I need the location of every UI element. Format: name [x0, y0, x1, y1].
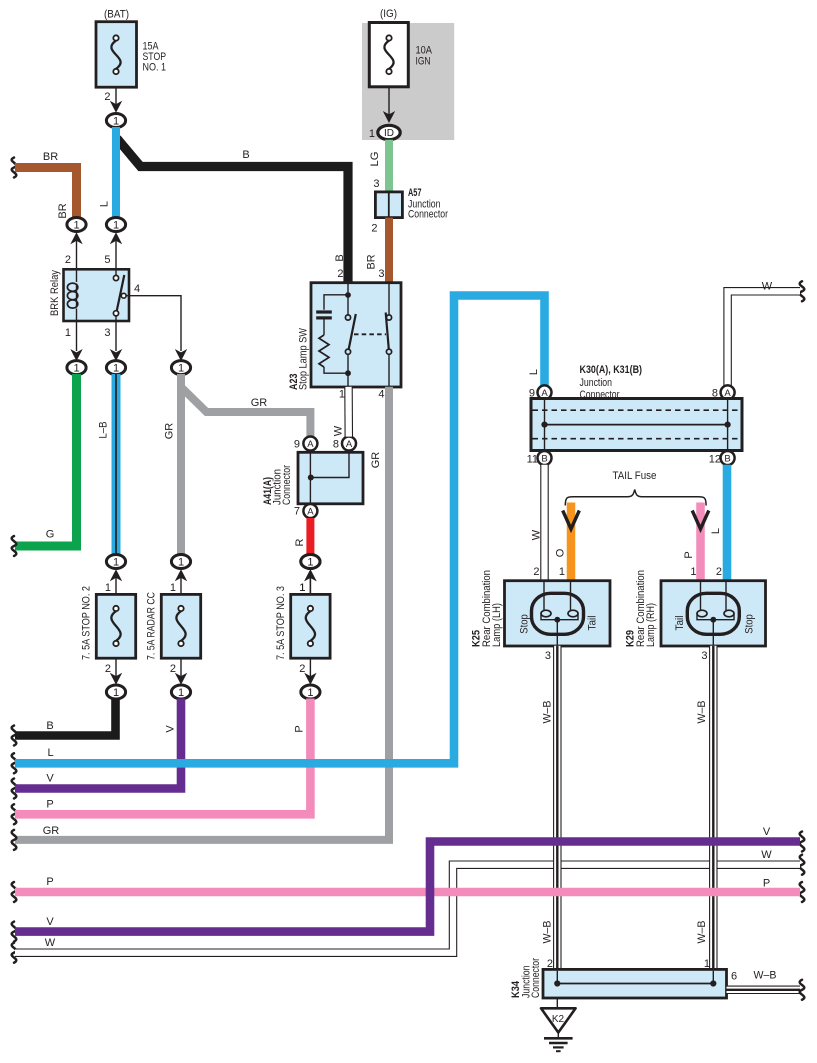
- svg-text:12: 12: [709, 453, 721, 465]
- ground point K2: [541, 1008, 576, 1032]
- svg-text:L: L: [99, 201, 111, 207]
- wire L (blue) main run to K30: [12, 296, 545, 774]
- A23 internal capacitor: [316, 295, 348, 335]
- svg-text:G: G: [46, 529, 55, 541]
- svg-text:B: B: [242, 149, 249, 161]
- connector 1 relay pin 3: [106, 361, 125, 375]
- svg-text:1: 1: [113, 556, 119, 568]
- svg-text:Connector: Connector: [530, 958, 542, 998]
- svg-text:7. 5A STOP NO. 3: 7. 5A STOP NO. 3: [275, 586, 287, 660]
- svg-text:W: W: [531, 529, 543, 540]
- svg-text:P: P: [46, 799, 53, 811]
- svg-text:GR: GR: [43, 825, 60, 837]
- pin 11 of K30: [527, 451, 552, 465]
- wire BR (brown) A57 to A23: [366, 218, 390, 283]
- svg-text:L: L: [528, 369, 540, 375]
- svg-text:2: 2: [371, 223, 377, 235]
- connector 1 on R wire: [299, 555, 320, 595]
- svg-text:1: 1: [73, 219, 79, 231]
- wire B (black) fuse STOP NO.2 to left edge: [12, 699, 116, 746]
- svg-text:GR: GR: [164, 423, 176, 440]
- wire L-B (blue-black): [98, 374, 117, 556]
- svg-text:4: 4: [134, 283, 140, 295]
- svg-text:K2: K2: [552, 1014, 565, 1025]
- wire GR (gray) relay to RADAR CC fuse: [164, 374, 182, 556]
- label K30(A), K31(B) Junction Connector: [580, 364, 643, 401]
- svg-text:4: 4: [378, 389, 384, 401]
- connector 1 above fuse 7. 5A RADAR CC: [170, 555, 191, 595]
- fuse 7. 5A STOP NO. 3: [291, 594, 330, 658]
- connector 1 below fuse 7. 5A STOP NO. 2: [106, 685, 125, 699]
- lamp K25 Rear Combination Lamp (LH): [505, 581, 611, 646]
- svg-text:W: W: [761, 849, 772, 861]
- wire V (violet) lower bus: [12, 826, 805, 942]
- svg-text:(BAT): (BAT): [104, 9, 129, 21]
- svg-text:A: A: [346, 439, 353, 450]
- svg-text:1: 1: [369, 128, 375, 140]
- pin 1 of relay: [65, 321, 83, 361]
- A23 switch contact right: [386, 283, 392, 387]
- svg-text:1: 1: [113, 687, 119, 699]
- A23 switch contact left: [345, 283, 356, 387]
- svg-text:Tail: Tail: [587, 616, 599, 631]
- svg-text:1: 1: [105, 582, 111, 594]
- connector 1 above fuse 7. 5A STOP NO. 2: [105, 555, 126, 595]
- svg-text:1: 1: [690, 566, 696, 578]
- pin 8 of A41: [333, 437, 356, 451]
- svg-text:3: 3: [104, 327, 110, 339]
- svg-text:3: 3: [545, 650, 551, 662]
- svg-text:1: 1: [113, 363, 119, 375]
- junction connector K34: [543, 969, 727, 998]
- label 10A IGN: [416, 45, 433, 68]
- relay BRK Relay: [49, 269, 129, 321]
- label K29 Rear Combination Lamp (RH): [625, 570, 658, 647]
- shaded panel (IG area): [362, 23, 454, 140]
- wire P (pink) lower bus left to right: [12, 876, 805, 902]
- svg-text:P: P: [46, 876, 53, 888]
- svg-text:7. 5A RADAR CC: 7. 5A RADAR CC: [146, 592, 158, 660]
- svg-text:Connector: Connector: [408, 209, 448, 221]
- pin 3 of relay: [104, 321, 122, 361]
- svg-text:IGN: IGN: [416, 56, 431, 68]
- wire V (violet) fuse RADAR CC to left edge: [12, 699, 181, 799]
- svg-text:A57: A57: [408, 187, 422, 199]
- svg-text:GR: GR: [370, 452, 382, 469]
- label A23 Stop Lamp SW: [288, 327, 310, 390]
- svg-text:Stop: Stop: [744, 614, 756, 634]
- pin 7 of A41: [294, 504, 318, 518]
- svg-text:V: V: [165, 725, 177, 733]
- svg-text:V: V: [763, 826, 771, 838]
- relay coil: [67, 269, 77, 321]
- svg-text:LG: LG: [369, 152, 381, 167]
- svg-text:W–B: W–B: [542, 701, 554, 724]
- wire W (white) A23 pin 1 to A41 pin 8: [333, 387, 349, 437]
- A23 internal resistor: [319, 335, 348, 373]
- svg-text:GR: GR: [251, 397, 268, 409]
- svg-text:O: O: [555, 548, 567, 557]
- svg-text:V: V: [46, 773, 54, 785]
- svg-text:1: 1: [73, 363, 79, 375]
- svg-text:L: L: [47, 747, 53, 759]
- svg-text:W–B: W–B: [542, 921, 554, 944]
- wire W (white) K30 pin 11 to K25: [531, 465, 545, 581]
- wire P (pink) fuse STOP NO.3 to left edge: [12, 699, 311, 825]
- svg-text:3: 3: [378, 268, 384, 280]
- svg-text:1: 1: [178, 687, 184, 699]
- svg-text:ID: ID: [384, 128, 394, 139]
- svg-text:W: W: [45, 937, 56, 949]
- svg-text:W: W: [762, 281, 773, 293]
- svg-text:(IG): (IG): [380, 8, 397, 20]
- svg-text:2: 2: [65, 254, 71, 266]
- svg-text:1: 1: [113, 219, 119, 231]
- connector 1 below fuse 7. 5A RADAR CC: [171, 685, 190, 699]
- junction connector K30(A), K31(B): [531, 399, 742, 451]
- wire P (pink) from TAIL fuse to K29: [683, 503, 709, 582]
- wire W-B from K34 pin 6 to right edge: [727, 970, 805, 1000]
- wire G (green) to left edge: [12, 374, 77, 556]
- svg-text:Lamp (RH): Lamp (RH): [645, 603, 657, 647]
- svg-text:K30(A), K31(B): K30(A), K31(B): [580, 364, 643, 376]
- connector 1 below BAT fuse: [106, 114, 125, 128]
- svg-text:BR: BR: [43, 151, 58, 163]
- fuse 7. 5A RADAR CC: [161, 594, 200, 658]
- svg-text:1: 1: [339, 389, 345, 401]
- pin 9 of K30: [529, 385, 552, 399]
- svg-text:BRK Relay: BRK Relay: [49, 270, 61, 316]
- lamp K29 Rear Combination Lamp (RH): [661, 581, 766, 646]
- svg-text:W–B: W–B: [696, 701, 708, 724]
- svg-text:2: 2: [716, 566, 722, 578]
- pin 2 and pin 5 of BRK relay: [65, 254, 111, 266]
- label K34 Junction Connector: [510, 958, 542, 998]
- svg-text:L: L: [710, 528, 722, 534]
- svg-text:7: 7: [294, 506, 300, 518]
- wire GR (gray) branch to A41: [181, 387, 310, 437]
- svg-text:Stop Lamp SW: Stop Lamp SW: [298, 327, 310, 390]
- connector 1 on L wire: [106, 218, 125, 270]
- pin 12 of K30: [709, 451, 735, 465]
- svg-text:2: 2: [533, 566, 539, 578]
- label K25 Rear Combination Lamp (LH): [471, 570, 504, 647]
- wire R (red): [294, 518, 310, 555]
- svg-text:1: 1: [178, 363, 184, 375]
- fuse 15A STOP NO. 1: [96, 22, 137, 88]
- svg-text:9: 9: [294, 439, 300, 451]
- connector 1 above fuse 7. 5A STOP NO. 3: [299, 555, 320, 595]
- wire L (blue) below BAT fuse: [99, 127, 117, 225]
- junction connector A41(A): [298, 451, 363, 505]
- svg-text:BR: BR: [57, 203, 69, 218]
- wire GR (gray) A23 pin 4 to left edge: [12, 387, 389, 850]
- wire BR (brown) from left: [12, 151, 77, 221]
- svg-text:3: 3: [373, 178, 379, 190]
- svg-text:Lamp (LH): Lamp (LH): [491, 603, 503, 647]
- wire W-B from K29 pin 3 to K34: [696, 646, 713, 970]
- svg-text:Junction: Junction: [580, 377, 613, 389]
- svg-text:1: 1: [307, 556, 313, 568]
- svg-text:B: B: [541, 453, 547, 464]
- A23 mechanical link dashed: [354, 333, 386, 335]
- svg-text:1: 1: [559, 566, 565, 578]
- wire W (white) lower bus: [12, 849, 805, 963]
- connector 1 relay pin 1: [67, 361, 86, 375]
- svg-text:1: 1: [113, 115, 119, 127]
- svg-text:B: B: [724, 453, 730, 464]
- svg-text:TAIL Fuse: TAIL Fuse: [613, 470, 657, 482]
- relay switch contacts: [113, 269, 126, 321]
- pin 9 of A41: [294, 437, 318, 451]
- svg-text:P: P: [683, 551, 695, 558]
- svg-text:2: 2: [337, 268, 343, 280]
- svg-text:V: V: [46, 916, 54, 928]
- svg-text:P: P: [763, 878, 770, 890]
- svg-text:B: B: [334, 254, 346, 261]
- pin 2 of fuse 7. 5A STOP NO. 2: [105, 658, 122, 685]
- ground wire from K34: [556, 998, 558, 1008]
- svg-text:L–B: L–B: [98, 422, 110, 439]
- fuse 7. 5A STOP NO. 2: [96, 594, 135, 658]
- svg-text:W–B: W–B: [696, 921, 708, 944]
- svg-text:1: 1: [307, 687, 313, 699]
- wire B (black) fuse to stop lamp switch: [117, 139, 348, 284]
- pin 2 of fuse 7. 5A STOP NO. 3: [299, 658, 316, 685]
- connector 1 relay pin 4: [171, 361, 190, 375]
- pin 4 wire of relay: [126, 283, 187, 361]
- svg-text:BR: BR: [366, 254, 378, 269]
- svg-text:A: A: [307, 439, 314, 450]
- label TAIL Fuse with brace: [565, 470, 706, 506]
- label A41(A) Junction Connector: [262, 465, 293, 505]
- svg-text:11: 11: [527, 453, 538, 465]
- svg-text:1: 1: [65, 327, 71, 339]
- svg-text:Tail: Tail: [674, 616, 686, 631]
- wire L (blue) K30 pin 12 to K29: [710, 465, 727, 581]
- connector 1 on BR wire: [67, 218, 86, 270]
- svg-text:A: A: [307, 506, 314, 517]
- svg-text:NO. 1: NO. 1: [143, 62, 167, 74]
- svg-text:2: 2: [104, 91, 110, 103]
- svg-text:1: 1: [178, 556, 184, 568]
- ground symbol: [544, 1033, 573, 1052]
- svg-text:R: R: [294, 538, 306, 546]
- label A57 Junction Connector: [408, 187, 448, 221]
- wire O (orange) from TAIL fuse to K25: [555, 503, 580, 582]
- svg-text:W–B: W–B: [754, 970, 777, 982]
- svg-text:6: 6: [731, 971, 737, 983]
- connector 1 below fuse 7. 5A STOP NO. 3: [301, 685, 320, 699]
- fuse 10A IGN: [369, 23, 408, 87]
- wire W (white) right edge to K30 pin 8: [728, 281, 805, 387]
- svg-text:P: P: [294, 725, 306, 732]
- pin 8 of K30: [712, 385, 735, 399]
- svg-text:8: 8: [333, 439, 339, 451]
- svg-text:5: 5: [104, 254, 110, 266]
- svg-text:Connector: Connector: [580, 389, 620, 401]
- connector ID: [378, 125, 400, 139]
- svg-text:Stop: Stop: [519, 614, 531, 634]
- svg-text:1: 1: [170, 582, 176, 594]
- label 15A STOP NO. 1: [143, 41, 167, 74]
- svg-text:7. 5A STOP NO. 2: 7. 5A STOP NO. 2: [81, 586, 93, 660]
- svg-text:1: 1: [299, 582, 305, 594]
- svg-text:3: 3: [701, 650, 707, 662]
- junction connector A57: [375, 192, 402, 218]
- switch A23 Stop Lamp SW: [311, 283, 401, 387]
- pin 2 of BAT fuse: [104, 87, 122, 113]
- wire W-B from K25 pin 3 to K34: [542, 646, 558, 970]
- svg-text:B: B: [46, 720, 53, 732]
- wire LG (light green): [369, 140, 389, 193]
- pin 2 of fuse 7. 5A RADAR CC: [170, 658, 187, 685]
- svg-text:Connector: Connector: [281, 465, 293, 505]
- svg-text:W: W: [333, 425, 345, 436]
- pin 1 of IG fuse: [369, 87, 395, 140]
